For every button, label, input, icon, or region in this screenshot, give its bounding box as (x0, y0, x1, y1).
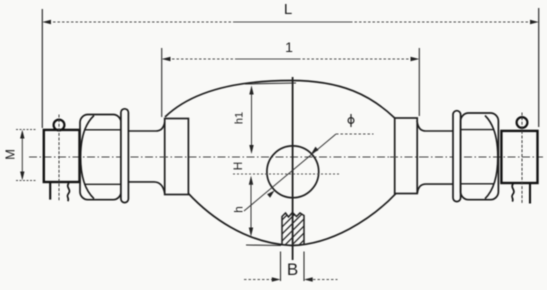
dimension M: bottom extension line (16, 180, 36, 182)
left neck top line (128, 121, 165, 132)
dimension L: dimension line solid segment (235, 21, 352, 23)
dimension L: dimension line (44, 21, 537, 23)
h1 top extension tick (245, 83, 296, 84)
dimension B: left arrow line (244, 279, 272, 281)
left straight leg (49, 183, 51, 200)
dimension M: bottom arrowhead (20, 172, 24, 181)
left coupling nut (80, 115, 121, 200)
svg-text:H: H (231, 162, 245, 171)
dimension L: left extension line (41, 9, 43, 128)
svg-text:h: h (232, 206, 246, 213)
right seal wire through block (521, 113, 523, 204)
right nut chamfer line top (461, 129, 494, 131)
body oval bottom arc (188, 193, 396, 246)
H lower arrowhead (points up to circle line) (249, 176, 253, 185)
right neck top line (417, 121, 453, 132)
right body inlet block (395, 118, 418, 194)
dimension B: right extension line (303, 252, 305, 282)
h1 bottom arrowhead (249, 145, 253, 154)
right seal circle (517, 117, 528, 128)
right nut facet arc (485, 116, 498, 199)
redraw centerline over right block (390, 156, 425, 158)
dimension L: left arrowhead (42, 20, 51, 24)
left body inlet block (165, 119, 189, 195)
right straight leg (529, 184, 531, 204)
left seal wire through block (58, 115, 60, 201)
h bottom arrowhead (249, 228, 253, 237)
dimension M: dimension line (21, 134, 23, 176)
left nut chamfer line bottom (84, 183, 121, 185)
left nut chamfer line top (84, 129, 121, 131)
right nut chamfer line bottom (461, 183, 494, 185)
h1 top arrowhead (249, 86, 253, 95)
boss hatched section fill (274, 213, 338, 249)
svg-text:L: L (284, 1, 292, 18)
left nut facet arc (81, 116, 94, 199)
right tailpiece block (501, 131, 537, 183)
dimension L: right arrowhead (530, 20, 539, 24)
central circle (register boss) (267, 146, 319, 198)
main horizontal centerline (29, 156, 543, 158)
phi symbol (348, 118, 354, 124)
body oval top arc (165, 81, 395, 119)
left flange (121, 109, 128, 203)
phi leader arrowhead lower-left (267, 190, 275, 197)
left neck bottom line (128, 182, 164, 193)
left seal circle (54, 120, 65, 131)
phi leader horizontal tail (336, 133, 374, 135)
boss outline (282, 213, 304, 245)
dimension 1: right arrowhead (411, 57, 420, 61)
h1 dimension line (251, 90, 253, 146)
redraw centerline over left block (160, 156, 195, 158)
svg-text:M: M (3, 149, 18, 160)
phi leader diagonal line (244, 134, 336, 211)
left tailpiece block (44, 130, 80, 182)
svg-text:1: 1 (285, 39, 293, 55)
left wavy leg (67, 183, 69, 201)
right neck bottom line (417, 184, 453, 193)
dimension 1: left extension line (161, 48, 163, 117)
dimension L: right extension line (538, 8, 540, 127)
dimension M: top extension line (16, 129, 36, 131)
dimension B: right arrow line (313, 279, 338, 281)
h bottom extension tick (246, 244, 281, 247)
right wavy leg (512, 184, 514, 202)
dimension B: left extension line (280, 252, 282, 282)
dimension M: top arrowhead (20, 130, 24, 139)
phi leader arrowhead upper-right (311, 147, 318, 154)
dimension 1: dimension line (163, 58, 418, 60)
dimension 1: right extension line (418, 48, 420, 116)
circle horizontal centerline (233, 173, 340, 175)
h dimension line (250, 183, 252, 229)
dimension 1: left arrowhead (162, 57, 171, 61)
right flange (453, 111, 461, 202)
right coupling nut (461, 113, 499, 200)
vertical centerline (292, 77, 294, 260)
svg-text:B: B (287, 260, 298, 279)
svg-text:h1: h1 (234, 112, 246, 124)
dimension 1: dimension line solid segment (237, 58, 300, 60)
